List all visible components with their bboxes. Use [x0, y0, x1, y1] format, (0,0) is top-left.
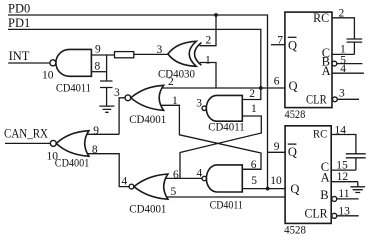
svg-text:1: 1	[251, 103, 257, 115]
svg-text:RC: RC	[313, 127, 327, 141]
svg-text:4: 4	[122, 175, 128, 187]
svg-text:8: 8	[92, 144, 98, 156]
svg-text:CD4011: CD4011	[210, 198, 243, 212]
svg-text:A: A	[322, 64, 331, 78]
svg-text:CAN_RX: CAN_RX	[4, 126, 48, 140]
svg-text:2: 2	[249, 88, 255, 100]
svg-text:10: 10	[42, 70, 54, 82]
svg-text:4528: 4528	[285, 109, 306, 121]
svg-text:8: 8	[95, 60, 101, 72]
svg-text:INT: INT	[9, 49, 30, 63]
svg-text:CD4001: CD4001	[129, 112, 166, 126]
svg-text:1: 1	[205, 54, 211, 66]
svg-text:3: 3	[339, 88, 345, 100]
svg-text:9: 9	[93, 125, 99, 137]
svg-text:PD0: PD0	[8, 2, 30, 16]
svg-text:Q: Q	[289, 79, 298, 93]
svg-text:CD4011: CD4011	[208, 120, 245, 134]
svg-text:11: 11	[338, 188, 349, 200]
svg-text:3: 3	[157, 44, 163, 56]
svg-text:5: 5	[251, 175, 257, 187]
svg-text:Q: Q	[288, 38, 297, 52]
svg-text:10: 10	[270, 175, 282, 187]
svg-text:CD4001: CD4001	[129, 201, 166, 215]
svg-text:6: 6	[274, 76, 280, 88]
svg-text:3: 3	[114, 87, 120, 99]
svg-text:B: B	[320, 188, 328, 202]
svg-text:A: A	[321, 170, 330, 184]
svg-text:2: 2	[168, 76, 174, 88]
svg-text:RC: RC	[313, 11, 329, 25]
svg-text:CLR: CLR	[306, 92, 327, 106]
svg-text:CD4011: CD4011	[56, 80, 91, 94]
svg-text:9: 9	[95, 44, 101, 56]
svg-text:6: 6	[173, 169, 179, 181]
svg-text:CD4030: CD4030	[158, 67, 195, 81]
svg-text:CD4001: CD4001	[55, 155, 90, 169]
svg-text:Q: Q	[288, 145, 297, 159]
svg-text:5: 5	[171, 186, 177, 198]
svg-text:PD1: PD1	[8, 16, 30, 30]
svg-text:2: 2	[206, 34, 212, 46]
svg-text:9: 9	[274, 141, 280, 153]
svg-text:4528: 4528	[284, 224, 306, 236]
svg-text:Q: Q	[290, 182, 299, 196]
svg-text:CLR: CLR	[305, 207, 329, 221]
